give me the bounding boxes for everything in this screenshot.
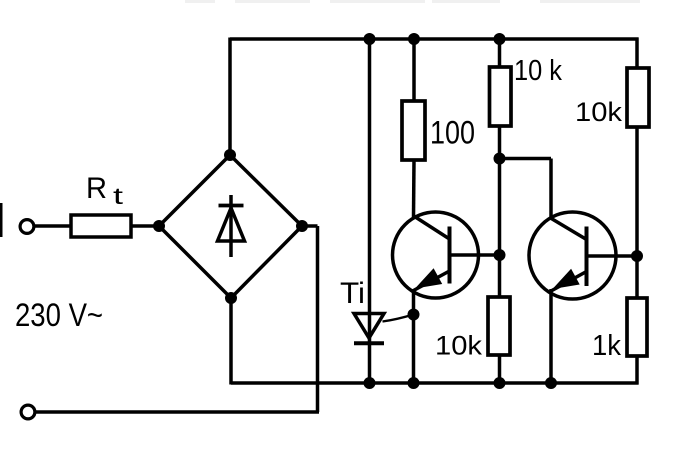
bridge diode [218, 195, 245, 257]
wire thyristor column [368, 39, 372, 383]
wire divider column top [498, 39, 502, 67]
node bridge bottom [225, 292, 237, 304]
resistor 10k lower-middle [488, 297, 510, 355]
resistor 100 [402, 101, 425, 160]
Q1 emitter arrow [415, 268, 442, 288]
node bridge right [296, 220, 308, 232]
wire AC return vertical [316, 226, 320, 412]
node bridge top [224, 149, 236, 161]
wire terminal1 to Rt [34, 224, 71, 228]
node bridge left [153, 220, 165, 232]
wire right column bottom [635, 356, 639, 385]
resistor 10k upper-middle [490, 67, 512, 126]
wire terminal2 horizontal [35, 410, 319, 414]
svg-text:10 k: 10 k [514, 55, 562, 87]
wire Rt to bridge [131, 224, 159, 228]
transistor Q2 [529, 212, 637, 299]
svg-text:10k: 10k [435, 331, 483, 361]
terminal upper [20, 220, 34, 234]
wire Q2 collector vertical [549, 159, 553, 220]
wire right column top [635, 38, 639, 69]
Q2 emitter arrow [553, 269, 580, 289]
resistor Rt [71, 215, 131, 237]
node bottom rail / Q2 emitter [545, 377, 557, 389]
svg-text:1k: 1k [592, 330, 621, 362]
svg-text:R: R [86, 172, 107, 205]
node top rail / 100 [408, 33, 420, 45]
node Q1 emitter / gate [408, 309, 420, 321]
svg-text:t: t [113, 183, 124, 209]
resistor 10k right [627, 68, 649, 127]
thyristor Ti [354, 314, 413, 344]
node Q1 base [494, 249, 506, 261]
wire divider column bottom [498, 355, 502, 383]
wire Q2 emitter down [549, 289, 553, 383]
svg-text:230 V~: 230 V~ [15, 297, 103, 333]
svg-text:10k: 10k [575, 97, 623, 127]
wire bridge top vertical [228, 38, 232, 156]
svg-text:100: 100 [430, 115, 475, 151]
wire 100-resistor to Q1 [412, 160, 416, 217]
terminal lower [21, 405, 35, 419]
node bottom rail / divider [494, 377, 506, 389]
node bottom rail / thyristor [364, 377, 376, 389]
wire top rail [230, 37, 639, 41]
resistor 1k [627, 298, 647, 356]
node Q2 base [631, 250, 643, 262]
wire bridge bottom vertical [229, 298, 233, 385]
wire bottom rail [231, 381, 639, 385]
wire right column middle [635, 127, 639, 298]
wire 100-resistor top [412, 39, 416, 101]
wire divider column middle [498, 126, 502, 297]
transistor Q1 [393, 212, 501, 298]
node divider upper / Q2 collector [494, 153, 506, 165]
wire node to Q2 collector horizontal [500, 157, 552, 161]
wire bridge right stub [302, 224, 318, 228]
scan mark left edge [0, 203, 3, 237]
cropped text remnants top edge (decorative) [185, 0, 640, 3]
wire Q1 emitter down [412, 289, 416, 383]
bridge rectifier diamond [159, 155, 302, 298]
node bottom rail / Q1 emitter [408, 377, 420, 389]
node top rail / divider [494, 33, 506, 45]
svg-text:Ti: Ti [340, 277, 365, 310]
node top rail / thyristor [364, 33, 376, 45]
